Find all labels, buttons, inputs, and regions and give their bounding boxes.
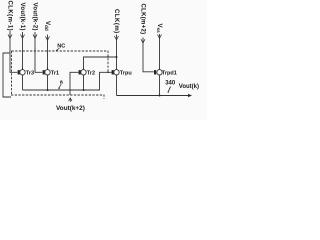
transistor Tr3	[18, 67, 26, 90]
junction dot NC vertical / Trpu gate	[107, 72, 109, 74]
junction dot Tr2 source / rail	[83, 89, 85, 91]
node output arrowhead	[188, 94, 192, 97]
node Vout(k-1) arrowhead	[21, 34, 25, 38]
svg-text:CLK(m+2): CLK(m+2)	[140, 4, 146, 35]
wire Vout(k-1) input vertical	[22, 32, 24, 70]
svg-text:Vout(k+2): Vout(k+2)	[56, 105, 85, 112]
transistor Trpu	[112, 70, 120, 96]
node CLK(m-1) arrowhead	[8, 34, 12, 38]
junction dot Tr2 drain / CLK(m)	[116, 56, 118, 58]
svg-text:Vout(k-2): Vout(k-2)	[32, 3, 38, 31]
wire left branch to edge	[3, 53, 11, 97]
transistor Tr1	[43, 67, 51, 90]
wire Vdd input vertical	[47, 35, 49, 70]
svg-text:Tr1: Tr1	[51, 71, 59, 77]
node Vout(k+2) dashed net: bottom horizontal with end hook	[11, 95, 104, 99]
node Vss arrowhead	[158, 34, 162, 38]
svg-text:CLK(m-1): CLK(m-1)	[7, 1, 13, 32]
svg-text:Tr3: Tr3	[26, 71, 34, 77]
wire Vss input vertical	[159, 34, 161, 70]
svg-text:CLK(m): CLK(m)	[113, 9, 119, 34]
node NC dashed net: top horizontal and down to Trpu gate	[12, 51, 109, 72]
wire Tr2 gate to bottom dashed net	[70, 72, 79, 95]
svg-text:Vdd: Vdd	[44, 21, 50, 31]
svg-text:Vss: Vss	[156, 24, 162, 34]
transistor Tr2	[79, 70, 87, 90]
node Vout(k+2) pointer arrow	[69, 98, 72, 102]
transistor Trpd1	[154, 70, 162, 96]
junction dot NC vertical / drain wire	[107, 56, 109, 58]
node a pointer arrow	[59, 84, 61, 88]
wire CLK(m+2) input vertical	[143, 38, 154, 72]
svg-text:Trpd1: Trpd1	[162, 71, 177, 77]
svg-text:Trpu: Trpu	[120, 71, 132, 77]
junction dot Trpd1 / output	[159, 95, 161, 97]
wire Vout(k) output line	[117, 95, 189, 97]
node NC pointer arrow	[56, 48, 59, 51]
node CLK(m) arrowhead	[115, 36, 119, 40]
svg-text:340: 340	[165, 80, 176, 86]
svg-text:a: a	[60, 79, 64, 85]
wire Vout(k-2) input vertical	[35, 32, 42, 72]
junction dot Tr1 source / rail	[47, 89, 49, 91]
node NC dashed net: left vertical	[11, 51, 13, 95]
node Vout(k-2) arrowhead	[33, 34, 37, 38]
wire CLK(m-1) input vertical	[10, 31, 17, 72]
node CLK(m+2) arrowhead	[141, 39, 145, 43]
wire node-a rail	[23, 72, 112, 90]
svg-text:Tr2: Tr2	[87, 71, 95, 77]
wire CLK(m) input vertical	[116, 35, 118, 70]
label 340 pointer arrow	[168, 87, 171, 93]
svg-text:Vout(k): Vout(k)	[179, 84, 199, 90]
node Vdd arrowhead	[46, 36, 50, 40]
svg-text:NC: NC	[57, 43, 65, 49]
svg-text:Vout(k-1): Vout(k-1)	[19, 3, 25, 31]
wire Tr2 drain to CLK(m)	[84, 57, 117, 70]
